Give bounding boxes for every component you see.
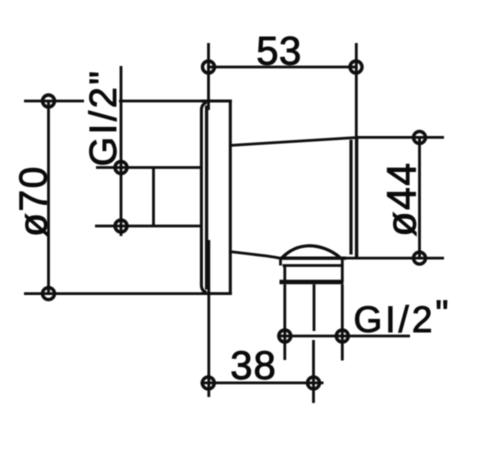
dim 53 line [207, 66, 357, 69]
outlet center line upper [313, 284, 316, 331]
dim o70 line [47, 101, 50, 294]
svg-text:GI/2": GI/2" [83, 69, 125, 167]
dim G1/2 left ext top [96, 166, 154, 169]
dome cap [282, 246, 340, 258]
dim G1/2 left vertical line [120, 66, 123, 236]
outlet stub left edge [283, 284, 286, 360]
svg-text:53: 53 [256, 30, 302, 74]
collar ring left edge [279, 258, 282, 265]
svg-text:GI/2": GI/2" [354, 293, 452, 340]
dim 53 ext left [207, 43, 210, 110]
dim G1/2 left ext bottom [95, 225, 201, 228]
outlet center line lower / dim 38 ext right [312, 340, 315, 403]
body cone bottom edge [229, 252, 281, 259]
dim o44 ext top [356, 136, 444, 139]
dim 38 circle left [202, 377, 214, 389]
flange bottom edge [201, 292, 232, 295]
dim 38 circle right [308, 377, 320, 389]
svg-text:ø70: ø70 [13, 165, 56, 237]
outlet stub right edge [341, 284, 344, 360]
inlet stub top edge [154, 166, 202, 169]
collar ring long top line with dim o44 ext bottom [281, 257, 347, 260]
collar ring bottom line [283, 264, 343, 267]
dim o44 line [418, 137, 421, 258]
dim G1/2 bottom circle right [336, 330, 348, 342]
flange left edge [201, 102, 206, 292]
dim G1/2 bottom circle left [279, 330, 291, 342]
dim o44 circle top [414, 131, 426, 143]
dim 38 line [201, 381, 324, 384]
flange inner line [205, 106, 208, 290]
dim o70 circle top [43, 95, 55, 107]
dim 53 ext right / front face edge [355, 43, 358, 137]
dim G1/2 bottom line [278, 335, 411, 338]
dim o70 ext bottom [24, 292, 232, 295]
svg-text:ø44: ø44 [379, 161, 425, 236]
dim G1/2 left circle bottom [115, 220, 127, 232]
flange right edge [229, 101, 232, 294]
dim o70 ext top [24, 100, 232, 103]
svg-text:38: 38 [230, 344, 277, 388]
collar ring right edge [341, 258, 344, 265]
body front inner line [349, 140, 352, 255]
dim 53 circle left [203, 61, 215, 73]
flange top edge [201, 100, 232, 103]
nut right edge [341, 266, 344, 283]
body cone top edge [229, 138, 355, 146]
nut bottom thick line [280, 280, 344, 285]
inlet stub left edge [152, 168, 155, 227]
nut left edge [283, 266, 286, 283]
dim 53 circle right [350, 61, 362, 73]
dim o70 circle bottom [43, 288, 55, 300]
dim 38 ext left [207, 240, 210, 397]
dim o44 circle bottom [414, 252, 426, 264]
dim G1/2 left circle top [115, 162, 127, 174]
